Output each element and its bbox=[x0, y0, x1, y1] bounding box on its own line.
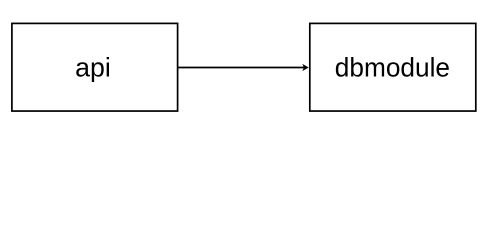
svg-text:dbmodule: dbmodule bbox=[335, 52, 450, 82]
node dbmodule box bbox=[310, 23, 476, 111]
node api box bbox=[12, 23, 178, 111]
svg-text:api: api bbox=[75, 52, 111, 82]
arrowhead into dbmodule bbox=[302, 64, 308, 71]
wire api to dbmodule bbox=[179, 67, 305, 69]
